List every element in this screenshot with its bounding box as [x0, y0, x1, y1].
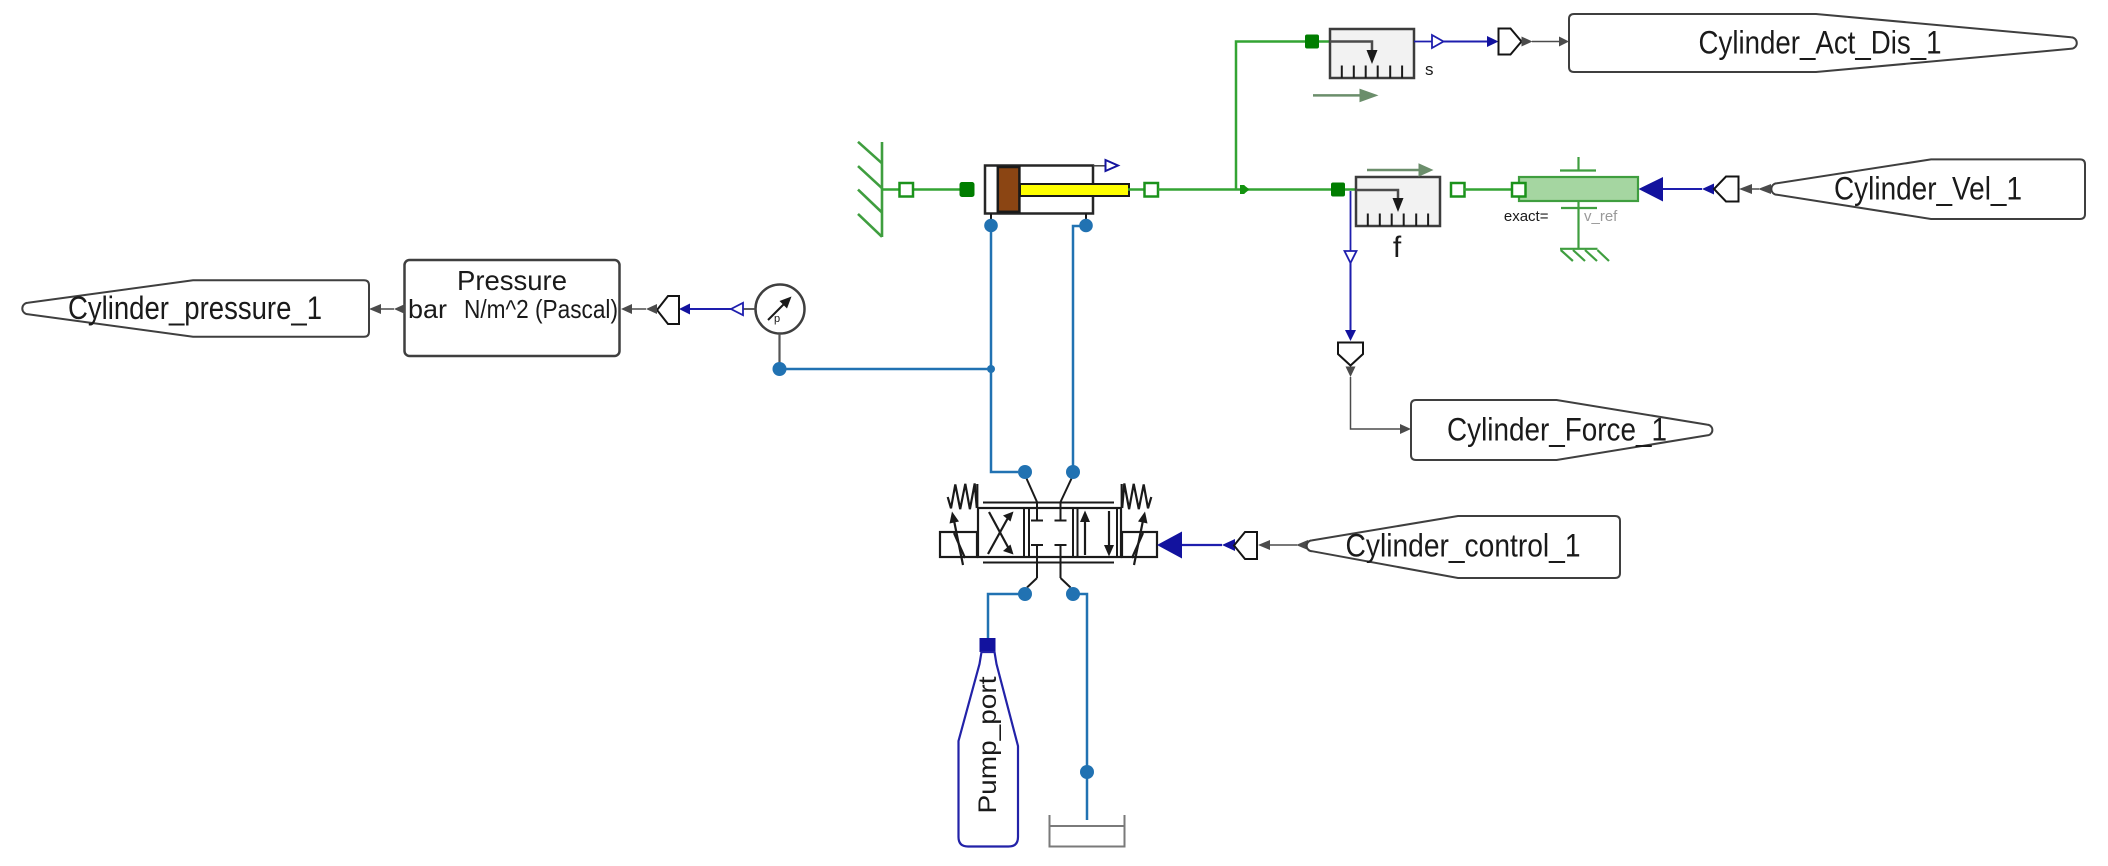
- hydraulic wire cylinder right to valve: [1073, 226, 1086, 472]
- navy arrowhead at pentagon: [679, 304, 690, 315]
- valve bottom rail: [983, 562, 1114, 564]
- signal wire valve to pentagon: [1182, 544, 1222, 546]
- signal wire to pentagon: [1444, 41, 1488, 43]
- flange filled square displacement sensor: [1305, 35, 1319, 49]
- ground of velocity source: [1560, 249, 1609, 261]
- cylinder piston: [998, 167, 1020, 212]
- svg-text:exact=: exact=: [1504, 208, 1549, 225]
- open triangle force signal: [1345, 251, 1357, 263]
- flange open square left: [900, 183, 914, 197]
- navy arrowhead at valve pentagon: [1222, 539, 1235, 551]
- svg-text:p: p: [774, 313, 780, 325]
- pentagon connector displacement: [1499, 29, 1522, 55]
- gray arrowhead at Act_Dis: [1559, 37, 1569, 47]
- gray arrowhead after control pentagon: [1258, 540, 1270, 550]
- svg-text:bar: bar: [408, 294, 447, 324]
- gray wire control: [1270, 544, 1297, 546]
- wire to force sensor: [1158, 188, 1332, 191]
- svg-text:N/m^2 (Pascal): N/m^2 (Pascal): [464, 294, 618, 324]
- pentagon connector force: [1338, 343, 1363, 366]
- gauge bottom dot: [773, 362, 787, 376]
- navy input triangle at source: [1639, 177, 1664, 202]
- gray arrowhead after velocity pentagon: [1739, 184, 1752, 194]
- valve input triangle: [1157, 532, 1182, 559]
- output connector Cylinder_Force_1: [1411, 400, 1712, 460]
- wire square to block: [1319, 40, 1330, 43]
- signal wire to force pentagon: [1350, 263, 1352, 330]
- junction dot tank line: [1080, 765, 1094, 779]
- valve spring right: [1122, 484, 1151, 510]
- wire rod to right flange: [1128, 188, 1145, 191]
- flange filled square force sensor: [1331, 183, 1345, 197]
- cylinder body: [985, 166, 1093, 214]
- gray arrowhead at block left: [394, 304, 405, 314]
- gray arrowhead at control shape: [1296, 540, 1308, 550]
- pressure gauge: [743, 285, 805, 365]
- valve center port stubs: [1027, 479, 1072, 588]
- navy arrowhead at source pentagon: [1702, 184, 1714, 195]
- gray arrowhead at Force shape: [1400, 424, 1411, 434]
- input connector Cylinder_control_1: [1307, 516, 1620, 578]
- gray wire force to shape: [1351, 377, 1401, 429]
- gray arrowhead after pentagon: [646, 304, 657, 314]
- svg-text:f: f: [1393, 231, 1402, 264]
- tank: [1050, 815, 1125, 847]
- hydraulic wire valve to pump port: [988, 594, 1025, 638]
- displacement sensor block: [1330, 29, 1414, 78]
- cylinder port dots: [984, 219, 998, 233]
- valve port dots: [1018, 465, 1032, 479]
- flange filled square cylinder left: [960, 183, 974, 197]
- pump port connector square: [980, 638, 996, 652]
- signal wire gauge to pentagon: [690, 308, 731, 310]
- gray wire block to shape: [381, 308, 394, 310]
- valve spring left: [948, 484, 977, 510]
- wire junction up to displacement sensor: [1236, 42, 1306, 190]
- gray arrowhead at pressure shape: [369, 304, 381, 314]
- gray wire to Pressure block: [632, 308, 646, 310]
- force sensor block: [1356, 177, 1440, 226]
- gray wire to Act_Dis: [1532, 41, 1560, 43]
- valve body: [978, 508, 1121, 557]
- junction gauge tap: [987, 365, 995, 373]
- gray arrowhead at Vel shape: [1758, 184, 1771, 194]
- pentagon connector control: [1234, 532, 1257, 559]
- cylinder rod: [1020, 184, 1129, 196]
- valve crossed arrows left box: [988, 516, 1009, 554]
- hydraulic wire gauge to junction: [779, 368, 991, 371]
- svg-text:Cylinder_Force_1: Cylinder_Force_1: [1447, 412, 1667, 448]
- velocity source block v_ref: [1519, 157, 1638, 249]
- direction arrow force: [1367, 163, 1434, 177]
- pentagon connector velocity: [1714, 177, 1739, 202]
- svg-text:s: s: [1425, 60, 1434, 79]
- input connector Cylinder_Vel_1: [1771, 159, 2085, 219]
- signal wire source to pentagon: [1663, 188, 1702, 190]
- svg-text:Cylinder_Vel_1: Cylinder_Vel_1: [1834, 171, 2022, 207]
- direction arrow displacement: [1313, 89, 1379, 103]
- pump port bottle: [959, 652, 1019, 847]
- valve parallel arrows right box: [1084, 520, 1086, 555]
- Pressure display block: [405, 260, 620, 356]
- cylinder stroke line and arrow: [1093, 160, 1118, 171]
- force sensor signal wire down: [1350, 191, 1352, 251]
- svg-text:Cylinder_Act_Dis_1: Cylinder_Act_Dis_1: [1699, 25, 1942, 61]
- wire wall to cylinder flange: [882, 188, 961, 191]
- wire force sensor to source: [1464, 188, 1514, 191]
- gray wire velocity: [1752, 188, 1759, 190]
- pentagon connector pressure: [657, 296, 679, 324]
- svg-text:Pressure: Pressure: [457, 265, 567, 296]
- gray arrowhead after pentagon displacement: [1522, 37, 1533, 47]
- flange open square source left: [1512, 183, 1526, 197]
- navy arrowhead at force pentagon: [1345, 330, 1356, 341]
- navy arrowhead displacement: [1487, 36, 1499, 47]
- output connector Cylinder_Act_Dis_1: [1569, 14, 2077, 72]
- svg-text:Cylinder_control_1: Cylinder_control_1: [1346, 528, 1581, 564]
- signal wire displacement sensor: [1414, 41, 1432, 43]
- flange open square force right: [1451, 183, 1465, 197]
- svg-text:v_ref: v_ref: [1584, 208, 1618, 225]
- hydraulic wire cylinder left to valve: [991, 230, 1018, 472]
- cylinder port stubs: [991, 214, 1086, 220]
- flange open square cylinder right: [1145, 183, 1159, 197]
- gray arrowhead at Pressure block: [621, 304, 632, 314]
- junction arrow: [1240, 185, 1250, 194]
- svg-text:Pump_port: Pump_port: [974, 676, 1002, 813]
- hydraulic wire valve to tank: [1073, 594, 1087, 820]
- valve 4/3 directional: [940, 479, 1157, 588]
- gauge signal open triangle: [731, 303, 743, 315]
- valve solenoid right: [1122, 532, 1157, 557]
- wire square to force block: [1345, 188, 1356, 191]
- open triangle displacement signal: [1432, 35, 1444, 48]
- svg-text:Cylinder_pressure_1: Cylinder_pressure_1: [68, 290, 322, 326]
- valve top rail: [983, 502, 1114, 504]
- output connector Cylinder_pressure_1: [22, 280, 369, 337]
- wall fixed support: [858, 142, 882, 237]
- valve solenoid left: [940, 532, 977, 557]
- gray arrowhead after force pentagon: [1346, 367, 1356, 378]
